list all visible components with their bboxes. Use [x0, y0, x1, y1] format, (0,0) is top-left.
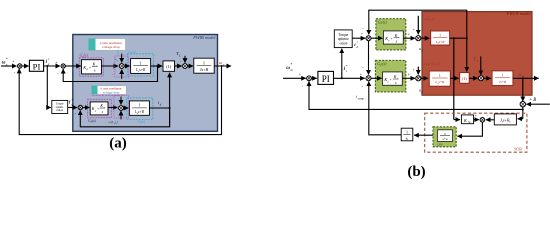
wire SB output down	[522, 107, 524, 119]
summing junction S3a	[183, 64, 188, 69]
junction dot iq_ref branch	[46, 65, 48, 67]
svg-text:+: +	[124, 103, 126, 107]
label +B input	[529, 98, 536, 103]
block Kfw	[461, 115, 473, 124]
block d-axis PI (b)	[383, 31, 403, 44]
dashed magenta box around X1a	[115, 56, 129, 77]
dashed controller box Gcq(s)	[79, 54, 103, 77]
label box d axis nonlinear voltage drop	[92, 86, 127, 95]
svg-text:+: +	[125, 61, 127, 65]
wire S3b to J block (b)	[484, 77, 491, 79]
svg-text:+: +	[475, 114, 477, 118]
svg-text:K: K	[463, 118, 467, 123]
junction dot omega feedback tap (a)	[221, 65, 223, 67]
FWIB model shaded box	[73, 35, 218, 132]
svg-text:-ation: -ation	[339, 41, 348, 45]
block 1/(Lq s + R)	[131, 59, 151, 74]
block 1/(Js+B) (a)	[194, 58, 214, 73]
summing junction S2a	[61, 64, 65, 68]
wire torque optimization to summing junction SD	[352, 37, 365, 39]
svg-text:ω(Lqiq): ω(Lqiq)	[109, 120, 118, 125]
wire S4a to d current PI block	[83, 107, 90, 109]
label u_d	[419, 46, 424, 52]
wire voltage-drop stub into X2a from top	[120, 97, 122, 105]
svg-text:*: *	[346, 64, 348, 68]
label is_ref	[344, 64, 348, 73]
svg-text:Lds+R: Lds+R	[134, 110, 145, 115]
svg-text:fw: fw	[468, 121, 471, 124]
svg-text:*: *	[291, 63, 293, 67]
wire (t) to summing junction S3a	[175, 65, 182, 67]
wire omega_m down to SB junction	[522, 78, 524, 101]
wire PI to summing junction S2b	[334, 77, 365, 79]
block d-axis current PI Kp+Ki/s	[90, 102, 108, 115]
svg-text:Gq(s): Gq(s)	[80, 54, 89, 59]
summing junction S1a	[18, 64, 22, 68]
junction dot omega feedback (b)	[522, 108, 524, 110]
svg-text:Gd(s): Gd(s)	[88, 119, 97, 124]
summing junction SS	[480, 118, 485, 123]
svg-text:L: L	[476, 59, 479, 63]
wire S2a to q current PI block	[65, 65, 81, 67]
wire Kfw to summing junction SS	[474, 119, 479, 121]
wire Je block to SS	[486, 119, 494, 121]
label box q axis nonlinear voltage drop	[89, 39, 126, 51]
label omega_m output	[518, 72, 524, 78]
label u_q	[419, 88, 424, 94]
FWCR model shaded box	[422, 11, 532, 95]
svg-text:SOB: SOB	[514, 147, 522, 152]
svg-text:+: +	[391, 37, 393, 41]
block 1/kt	[401, 128, 413, 141]
svg-text:K: K	[92, 61, 96, 66]
svg-text:ωλ: ωλ	[112, 72, 116, 76]
svg-text:Gq(s): Gq(s)	[128, 50, 136, 55]
svg-text:s+a: s+a	[443, 137, 448, 141]
svg-text:PI: PI	[33, 61, 41, 71]
wire Lq block to torque block Ta	[151, 65, 163, 67]
summing junction S1b	[307, 76, 312, 81]
svg-text:ω: ω	[518, 72, 521, 77]
wire decoupling stub into XQ from top	[417, 67, 419, 75]
wire Ld block to id node	[149, 107, 169, 109]
wire output omega_m	[513, 77, 539, 79]
junction dot id to Kfw tap	[453, 37, 455, 39]
block torque optimization (a)	[52, 100, 68, 113]
block q-axis PI (b)	[383, 72, 403, 85]
green controller box Gd (b)	[376, 19, 406, 50]
wire SS down-left to LPF	[457, 122, 482, 136]
svg-text:K: K	[393, 75, 397, 79]
green controller box Gq (b)	[375, 60, 405, 92]
wire Gd to cross-coupling junction XD	[403, 37, 415, 39]
green LPF box	[433, 127, 456, 147]
svg-text:*: *	[48, 57, 50, 61]
junction dot is_ref branch	[341, 77, 343, 79]
svg-text:ωe(ψ+Ldid): ωe(ψ+Ldid)	[422, 62, 440, 67]
junction dot iq feedback tap	[157, 65, 159, 67]
svg-text:1: 1	[138, 103, 140, 108]
block PI (b)	[318, 71, 334, 84]
block q-axis current PI Kp+Ki/s	[82, 60, 102, 74]
svg-text:voltage drop: voltage drop	[102, 45, 120, 49]
wire into Je block from right	[518, 118, 523, 120]
block 1/(Ld s+R) (b)	[431, 31, 450, 45]
svg-text:*: *	[6, 57, 8, 61]
svg-text:comp: comp	[358, 98, 365, 101]
svg-text:voltage drop: voltage drop	[103, 90, 120, 94]
summing junction S3b	[479, 76, 484, 81]
magenta underline of d label box	[92, 95, 124, 97]
wire PI to summing junction S2a	[44, 65, 60, 67]
wire is_ref up into torque optimization (b)	[341, 49, 343, 79]
svg-text:1: 1	[439, 34, 441, 38]
svg-text:+: +	[89, 66, 91, 70]
svg-text:Gqc(s): Gqc(s)	[377, 62, 387, 67]
svg-text:L: L	[178, 54, 181, 58]
dashed SOB box	[425, 113, 527, 152]
svg-text:1: 1	[203, 60, 205, 65]
svg-text:+: +	[113, 103, 115, 107]
wire S1a to PI	[22, 65, 29, 67]
label omega_e output	[219, 60, 225, 66]
wire TL into S3a	[184, 56, 186, 63]
wire S3a to J block	[187, 65, 193, 67]
summing junction S4a	[78, 105, 82, 109]
wire output omega_e	[214, 65, 231, 67]
junction dot omega_m tap	[522, 77, 524, 79]
svg-text:*: *	[71, 98, 73, 102]
wire q PI block to multiplier X1a	[101, 65, 118, 67]
summing junction XQ	[416, 76, 421, 81]
svg-text:Js+B: Js+B	[499, 80, 506, 84]
svg-text:Lds+R: Lds+R	[435, 40, 446, 45]
wire Lq to (t) block (b)	[450, 77, 458, 79]
dashed plant box Gd(s)	[127, 98, 153, 124]
wire XD to Ld block (b)	[421, 37, 429, 39]
wire id down into (t) block (b)	[466, 38, 468, 71]
wire voltage-drop stub into X1a from top	[121, 54, 123, 63]
svg-text:K: K	[99, 104, 103, 108]
wire id up into (t) bottom	[169, 73, 171, 127]
wire id feedback down-left to S4a	[80, 108, 169, 127]
svg-text:Js+B: Js+B	[200, 67, 209, 72]
summing junction XD	[416, 36, 421, 41]
wire omega feedback to S1b	[309, 81, 523, 109]
block a/(s+a)	[438, 130, 453, 142]
wire id down to Kfw	[453, 38, 455, 119]
svg-text:1: 1	[406, 131, 408, 135]
svg-text:Gd(s): Gd(s)	[138, 120, 146, 125]
wire omega feedback outer loop (a)	[19, 66, 221, 135]
svg-text:a: a	[444, 131, 446, 135]
svg-text:K: K	[394, 34, 398, 38]
svg-text:+: +	[413, 68, 415, 72]
svg-text:1: 1	[502, 74, 504, 78]
wire input to summing junction S1b	[283, 77, 306, 79]
label u_q near X1a	[115, 57, 119, 62]
wire d PI block to multiplier X2a	[108, 107, 117, 109]
block Je s + Be	[494, 114, 516, 125]
svg-text:(b): (b)	[407, 164, 425, 180]
svg-text:Gdc(s): Gdc(s)	[378, 20, 388, 25]
svg-text:1: 1	[140, 60, 142, 65]
svg-text:+: +	[97, 107, 99, 111]
svg-text:FWIB model: FWIB model	[192, 35, 216, 40]
label id (a)	[158, 100, 162, 107]
dashed plant box Gq(s)	[127, 50, 153, 76]
svg-text:q axis nonlinear: q axis nonlinear	[100, 41, 123, 45]
svg-text:+: +	[390, 78, 392, 82]
block 1/(Js+B) (b)	[492, 71, 513, 86]
label id_ref (a)	[69, 98, 73, 107]
svg-text:zation: zation	[56, 109, 63, 112]
svg-text:1: 1	[439, 74, 441, 78]
svg-text:LPF: LPF	[437, 143, 443, 147]
svg-text:+: +	[12, 60, 14, 64]
wire B input into SB	[526, 103, 549, 105]
svg-text:(a): (a)	[109, 136, 127, 152]
label id_ref (b)	[354, 40, 358, 48]
wire input to summing junction S1a	[1, 65, 17, 67]
multiplier X1a	[119, 64, 124, 69]
junction dot before X1a	[115, 65, 117, 67]
svg-text:Lqs+R: Lqs+R	[135, 68, 146, 73]
node iq_ref label	[46, 57, 50, 66]
block torque constant (t) a	[163, 61, 175, 71]
wire LPF to 1/kt block	[414, 134, 433, 136]
multiplier X2a	[119, 106, 124, 111]
svg-text:Lqs+R: Lqs+R	[434, 80, 445, 85]
wire stub into X1a from bottom	[121, 70, 123, 79]
block 1/(Lq s+R) (b)	[429, 71, 450, 86]
dashed magenta box around X2a	[114, 96, 129, 118]
wire TL into S3b	[480, 56, 482, 75]
node omega_e_ref input label	[2, 57, 8, 66]
svg-text:(1): (1)	[166, 64, 171, 69]
junction dot id corner	[466, 37, 468, 39]
wire torque optimization to summing junction S4a	[68, 107, 77, 109]
summing junction SD	[366, 36, 371, 41]
wire Gq to cross-coupling junction XQ	[402, 77, 415, 79]
svg-text:+: +	[114, 61, 116, 65]
wire X1a to Lq block	[124, 65, 129, 67]
label TL load torque (a)	[176, 51, 181, 58]
junction dot id node	[169, 107, 171, 109]
block 1/(Ld s + R)	[129, 101, 149, 115]
wire XQ to Lq block (b)	[421, 77, 428, 79]
wire iq_ref down into torque optimization block	[47, 66, 51, 108]
wire S1b to PI (b)	[311, 77, 316, 79]
label i_comp	[356, 94, 365, 100]
wire (t) to summing junction S3b	[469, 77, 477, 79]
wire SD to Gd block	[371, 37, 382, 39]
wire stub into X2a from bottom	[120, 111, 122, 120]
wire icomp from 1/kt up to S2b	[369, 82, 401, 135]
svg-text:PI: PI	[322, 74, 330, 84]
svg-text:-: -	[180, 59, 181, 63]
wire decoupling stub into XD from top	[417, 16, 419, 35]
svg-text:ω: ω	[219, 60, 222, 65]
svg-text:+ B: + B	[529, 98, 536, 103]
wire X2a to Ld block	[123, 107, 128, 109]
summing junction SB (+B)	[520, 102, 525, 107]
svg-text:FWCR model: FWCR model	[506, 11, 532, 16]
svg-text:(1): (1)	[462, 76, 467, 81]
block torque constant (t) b	[460, 73, 470, 84]
svg-text:kt: kt	[406, 137, 409, 142]
block PI (a)	[29, 60, 43, 71]
wire S2b to Gq block	[371, 77, 382, 79]
wire SD down to S2b	[368, 41, 370, 75]
block torque optimization (b)	[334, 30, 352, 48]
wire Ld out to id corner	[450, 37, 467, 39]
wire iq feedback down-left to S2a	[63, 66, 157, 82]
dashed controller box Gcd(s)	[88, 99, 112, 123]
label TL (b)	[473, 56, 478, 63]
node omega_m_ref input label	[286, 63, 293, 72]
summing junction S2b	[366, 76, 371, 81]
wire id feedback top loop	[369, 10, 467, 38]
